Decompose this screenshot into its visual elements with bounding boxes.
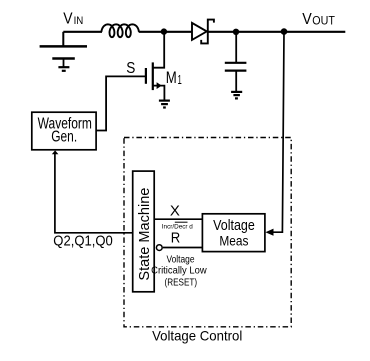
wire battery to ground [63, 59, 65, 68]
wire X [154, 218, 202, 220]
capacitor C1 [225, 63, 247, 71]
ground below battery [58, 67, 69, 71]
transistor M1 drain wire [153, 32, 164, 68]
arrowhead into voltage meas [265, 229, 273, 236]
wire capacitor to ground [235, 71, 237, 92]
svg-text:V: V [63, 11, 73, 28]
wire VIN rail [63, 31, 102, 33]
svg-text:Voltage: Voltage [213, 218, 255, 234]
transistor M1 source arrow [157, 82, 162, 89]
ground below M1 [159, 101, 170, 108]
diode D1 schottky triangle [192, 23, 207, 40]
battery VIN source short plate [52, 57, 75, 59]
svg-text:Meas: Meas [219, 233, 248, 248]
wire diode to VOUT [208, 31, 345, 33]
wire VIN source drop [62, 32, 64, 46]
label voltage critically low [151, 255, 207, 289]
battery VIN source long plate [40, 45, 87, 48]
svg-text:X: X [170, 204, 180, 220]
block waveform generator [32, 112, 96, 150]
wire gate S [96, 76, 146, 130]
svg-text:V: V [302, 11, 312, 28]
block voltage meas [202, 214, 265, 252]
svg-text:Voltage: Voltage [167, 255, 195, 266]
wire to capacitor [235, 32, 237, 63]
dashed voltage control boundary [124, 138, 291, 327]
ground below capacitor [231, 92, 242, 99]
svg-text:1: 1 [178, 73, 182, 87]
svg-text:R: R [171, 231, 181, 247]
svg-text:Critically Low: Critically Low [151, 265, 207, 276]
svg-text:Incr/Decr d: Incr/Decr d [162, 223, 193, 230]
inductor L1 [101, 24, 138, 37]
transistor M1 channel bar [152, 62, 154, 90]
label M1 [166, 69, 182, 87]
svg-text:IN: IN [74, 15, 84, 27]
node VIN label [63, 11, 83, 28]
svg-text:OUT: OUT [312, 13, 335, 27]
wire VOUT sense drop [273, 32, 284, 232]
transistor M1 gate bar [145, 68, 147, 84]
svg-text:Voltage Control: Voltage Control [152, 329, 242, 344]
svg-text:S: S [126, 60, 135, 77]
transistor M1 source wire [153, 86, 165, 100]
overline on Decr [175, 221, 188, 223]
bubble on reset input [156, 245, 162, 251]
arrowhead into waveform gen [52, 150, 59, 154]
wire inductor to diode [139, 31, 192, 33]
node VOUT label [302, 11, 335, 28]
wire Q bus [55, 153, 133, 233]
node switch junction [161, 28, 167, 34]
wire R [163, 247, 203, 249]
label voltage meas text [213, 218, 255, 248]
svg-text:(RESET): (RESET) [165, 278, 198, 289]
svg-text:M: M [166, 69, 177, 87]
svg-text:Q2,Q1,Q0: Q2,Q1,Q0 [53, 232, 113, 249]
node capacitor junction [233, 29, 239, 35]
label waveform gen text [38, 116, 92, 146]
svg-text:Gen.: Gen. [51, 128, 77, 145]
diode D1 schottky cathode bar [201, 20, 214, 44]
block state machine [133, 171, 155, 292]
node VOUT junction [281, 28, 288, 35]
